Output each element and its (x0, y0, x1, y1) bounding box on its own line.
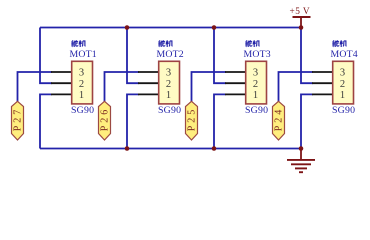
svg-text:+5 V: +5 V (290, 7, 311, 17)
svg-text:SG90: SG90 (158, 105, 181, 116)
svg-text:MOT4: MOT4 (331, 49, 358, 60)
svg-text:P27: P27 (12, 110, 23, 132)
svg-text:3: 3 (340, 68, 345, 79)
svg-text:1: 1 (79, 90, 84, 101)
svg-text:MOT1: MOT1 (70, 49, 97, 60)
svg-text:3: 3 (79, 68, 84, 79)
svg-text:2: 2 (79, 79, 84, 90)
svg-text:SG90: SG90 (71, 105, 94, 116)
svg-text:1: 1 (340, 90, 345, 101)
svg-text:SG90: SG90 (245, 105, 268, 116)
svg-text:P24: P24 (273, 110, 284, 132)
svg-text:MOT2: MOT2 (157, 49, 184, 60)
svg-text:2: 2 (340, 79, 345, 90)
svg-text:MOT3: MOT3 (244, 49, 271, 60)
svg-text:2: 2 (253, 79, 258, 90)
svg-text:3: 3 (253, 68, 258, 79)
svg-text:P25: P25 (186, 110, 197, 132)
svg-text:2: 2 (166, 79, 171, 90)
svg-text:SG90: SG90 (332, 105, 355, 116)
svg-text:1: 1 (166, 90, 171, 101)
svg-text:3: 3 (166, 68, 171, 79)
svg-text:1: 1 (253, 90, 258, 101)
svg-text:P26: P26 (99, 110, 110, 132)
